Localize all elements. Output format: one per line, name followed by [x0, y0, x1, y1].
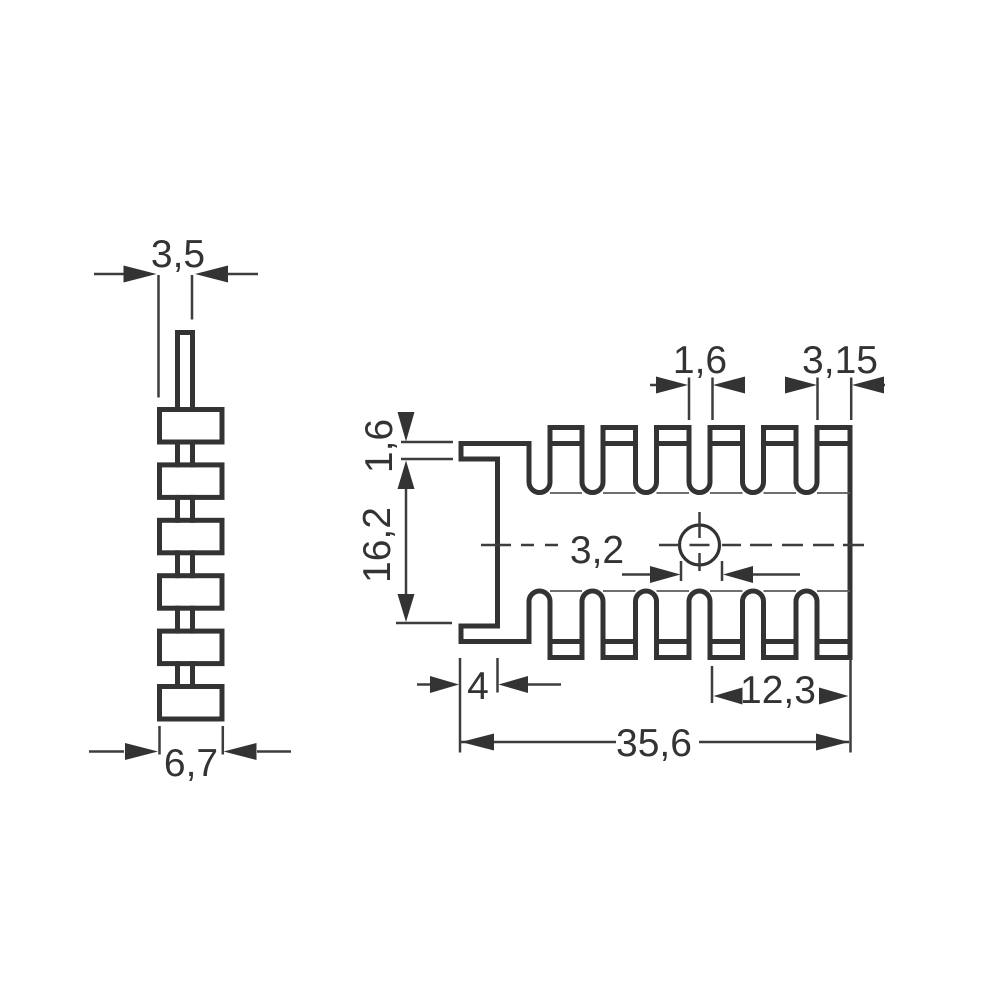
- mounting hole circle: [680, 525, 720, 565]
- side view neck between fin 2 and fin 3: [175, 497, 180, 520]
- extension line for 12,3 (left): [711, 666, 714, 703]
- svg-text:16,2: 16,2: [356, 507, 399, 583]
- extension line for 4 (right): [496, 658, 499, 693]
- heatsink side view: fin 2: [160, 465, 223, 498]
- svg-text:1,6: 1,6: [358, 419, 401, 473]
- svg-text:3,2: 3,2: [570, 529, 624, 572]
- svg-text:4: 4: [467, 665, 489, 708]
- svg-text:3,5: 3,5: [151, 233, 205, 276]
- extension ticks for 3,2: [680, 561, 683, 581]
- heatsink side view: fin 5: [160, 631, 223, 664]
- extension lines for 3,15: [816, 378, 819, 421]
- heatsink side view: fin 6: [160, 687, 223, 720]
- side view neck between fin 4 and fin 5: [175, 608, 180, 631]
- extension lines for 6,7: [158, 726, 161, 755]
- heatsink side view: fin 3: [160, 520, 223, 553]
- svg-text:1,6: 1,6: [673, 339, 727, 382]
- heatsink side view: fin 4: [160, 576, 223, 609]
- side view neck between fin 3 and fin 4: [175, 553, 180, 576]
- top view: channel web lines (bottom): [550, 639, 582, 644]
- svg-text:6,7: 6,7: [164, 742, 218, 785]
- top view: channel web lines (top): [550, 441, 582, 446]
- svg-text:3,15: 3,15: [802, 339, 878, 382]
- svg-text:12,3: 12,3: [740, 669, 816, 712]
- heatsink side view: fin 1: [160, 410, 223, 443]
- shared extension lines (left edge / right edge): [459, 658, 462, 753]
- svg-text:35,6: 35,6: [616, 722, 692, 765]
- side view neck between fin 5 and fin 6: [175, 664, 180, 687]
- extension lines for 3,5: [157, 275, 160, 398]
- heatsink top view: body outline with fin channels: [461, 428, 850, 658]
- horizontal dashed centerline: [481, 544, 511, 547]
- heatsink side view: solder pin: [178, 333, 193, 410]
- side view neck between fin 1 and fin 2: [175, 442, 180, 465]
- top view: hidden edge thin lines (top comb): [550, 492, 582, 494]
- dimension 6,7 (fin width) bottom of side view: [89, 750, 124, 753]
- vertical centerline through hole: [698, 512, 701, 538]
- top view: hidden edge thin lines (bottom comb): [550, 590, 582, 592]
- extension lines for 1,6: [688, 378, 691, 421]
